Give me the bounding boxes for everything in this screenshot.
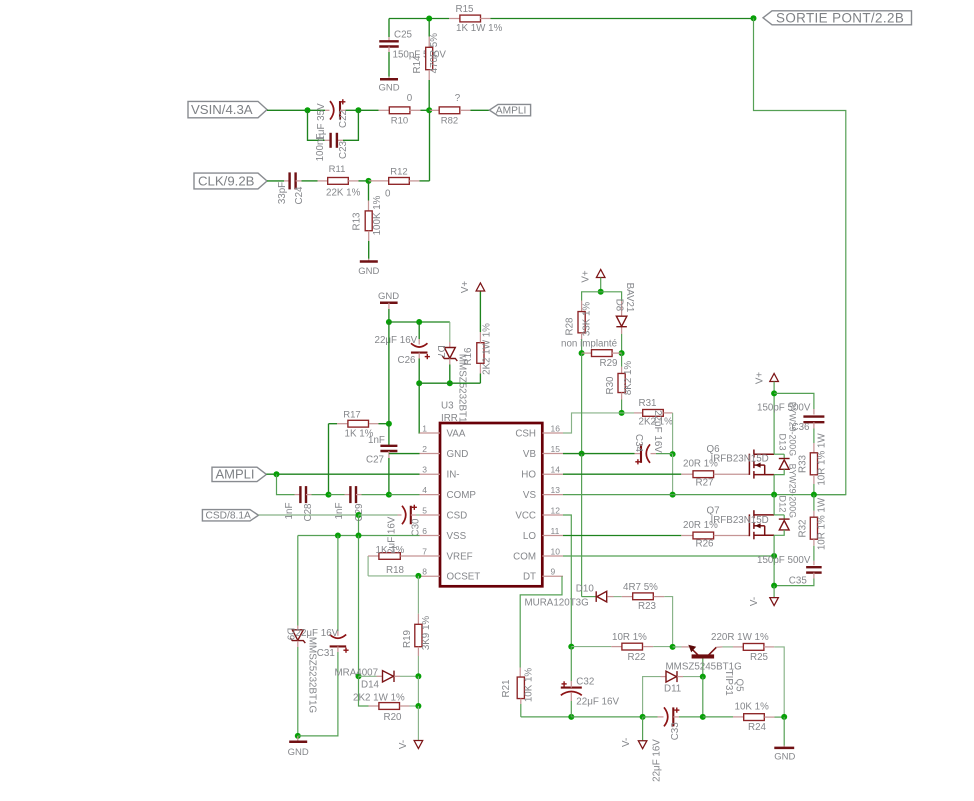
svg-text:4R7 5%: 4R7 5% <box>623 582 658 593</box>
node D11/Q5-base junction <box>700 674 706 680</box>
wire OCSET line <box>368 575 419 577</box>
label CLK/9.2B flag <box>194 173 267 189</box>
wire Q7 drain to VS <box>773 495 775 515</box>
svg-text:9: 9 <box>551 567 556 577</box>
svg-text:8K2 1%: 8K2 1% <box>623 361 634 396</box>
svg-text:150pF 500V: 150pF 500V <box>757 555 811 566</box>
node R31-net/VS junction <box>670 492 676 498</box>
wire V+ to C36 <box>774 393 814 409</box>
svg-text:2: 2 <box>422 444 427 454</box>
svg-text:R19: R19 <box>402 630 413 648</box>
svg-text:CSH: CSH <box>515 428 536 439</box>
svg-text:R15: R15 <box>456 4 475 15</box>
svg-text:1: 1 <box>422 423 427 433</box>
resistor R20 <box>353 693 418 724</box>
ground GND bottom-left <box>288 736 309 758</box>
wire COM to V- node <box>773 556 775 586</box>
svg-text:VCC: VCC <box>515 510 536 521</box>
resistor R22 <box>571 632 672 663</box>
svg-text:R30: R30 <box>605 376 616 395</box>
resistor R23 <box>622 582 673 647</box>
U3 pin 12 VCC <box>515 505 563 521</box>
resistor R17 <box>329 409 389 439</box>
svg-text:R12: R12 <box>390 167 407 178</box>
svg-text:D11: D11 <box>664 683 681 694</box>
svg-text:10K 1%: 10K 1% <box>735 702 770 713</box>
svg-text:IRFB23N15D: IRFB23N15D <box>711 454 769 465</box>
svg-text:V-: V- <box>398 740 409 749</box>
node D14 left junction <box>356 673 362 679</box>
svg-text:V+: V+ <box>460 281 471 294</box>
svg-text:GND: GND <box>447 449 469 460</box>
svg-text:C28: C28 <box>303 503 314 522</box>
svg-text:D7: D7 <box>435 345 446 358</box>
node top-center junction <box>426 16 432 22</box>
node Q6/Q7/VS junction <box>771 492 777 498</box>
power V- below COM node <box>749 586 779 607</box>
svg-text:D14: D14 <box>361 680 380 691</box>
label AMPLI flag (right) <box>489 104 530 116</box>
capacitor C31 (polarized) <box>296 536 349 736</box>
U3 pin 16 CSH <box>515 423 563 439</box>
diode D11 (MMSZ5245BT1G) <box>643 661 742 717</box>
ground GND below R13 <box>358 262 379 278</box>
wire VCC line <box>563 515 571 647</box>
wire C24 to R11 <box>302 180 318 182</box>
svg-text:22μF 16V: 22μF 16V <box>576 696 619 707</box>
svg-text:11: 11 <box>551 526 560 536</box>
wire AMPLI to IN- pin <box>266 473 419 475</box>
svg-text:DT: DT <box>523 572 536 583</box>
svg-text:R17: R17 <box>343 409 360 420</box>
svg-text:GND: GND <box>288 747 309 758</box>
capacitor C30 (polarized) <box>359 505 422 560</box>
transistor Q7 (IRFB23N15D) <box>707 506 775 540</box>
resistor R14 <box>412 19 440 111</box>
node V+/C36 junction <box>771 390 777 396</box>
power V+ above C36 <box>755 372 779 394</box>
U3 pin 2 GND <box>420 444 469 460</box>
capacitor C24 <box>277 172 305 204</box>
svg-text:non implanté: non implanté <box>561 339 618 350</box>
svg-text:IRR: IRR <box>441 413 458 424</box>
svg-text:R82: R82 <box>441 116 458 127</box>
resistor R25 <box>711 632 784 717</box>
U3 pin 3 IN- <box>420 465 460 481</box>
node COM/Q7-source junction <box>771 553 777 559</box>
resistor R24 <box>703 702 784 734</box>
resistor R82 <box>429 93 489 127</box>
svg-text:1nF: 1nF <box>284 503 295 520</box>
svg-text:1nF: 1nF <box>368 435 385 446</box>
svg-text:R25: R25 <box>750 652 769 663</box>
svg-text:10R 1% 1W: 10R 1% 1W <box>817 497 828 550</box>
svg-text:AMPLI: AMPLI <box>216 467 255 482</box>
svg-text:R22: R22 <box>628 652 646 663</box>
svg-text:VAA: VAA <box>447 428 466 439</box>
capacitor C27 <box>366 322 397 495</box>
capacitor C25 <box>379 19 446 80</box>
wire COM line <box>563 555 774 557</box>
svg-text:22μF 16V: 22μF 16V <box>651 739 662 782</box>
node VSS/CSD junction <box>356 533 362 539</box>
node AMPLI/R14 junction <box>426 107 432 113</box>
diode D14 (MRA4007) <box>335 667 419 690</box>
wire U3 GND pin to rail <box>389 453 420 455</box>
U3 pin 4 COMP <box>420 485 477 501</box>
wire DT net <box>520 576 562 667</box>
transistor Q6 (IRFB23N15D) <box>707 444 775 479</box>
node C28/C29 junction <box>326 492 332 498</box>
svg-text:10R 1%: 10R 1% <box>612 632 647 643</box>
wire R12 up to AMPLI node <box>429 110 431 181</box>
wire CSD line <box>259 514 359 516</box>
label SORTIE PONT/2.2B flag <box>763 10 912 25</box>
svg-text:MURA120T3G: MURA120T3G <box>525 597 589 608</box>
svg-text:GND: GND <box>378 83 399 94</box>
capacitor C22 (polarized) <box>316 99 358 140</box>
ground GND above C26 (inverted) <box>378 291 399 322</box>
svg-text:GND: GND <box>774 752 795 763</box>
svg-text:CSD: CSD <box>447 510 468 521</box>
svg-text:33K 1%: 33K 1% <box>581 302 592 337</box>
svg-text:3K9 1%: 3K9 1% <box>421 616 432 651</box>
resistor R16 <box>463 291 493 375</box>
diode D9 (zener MMSZ5232BT1G) <box>285 626 318 736</box>
svg-text:D10: D10 <box>576 584 595 595</box>
svg-text:D9: D9 <box>285 628 296 641</box>
node V-/C35 junction <box>771 583 777 589</box>
wire Q6 source to VS <box>773 475 775 495</box>
svg-text:7: 7 <box>422 546 427 556</box>
node R19/R20 junction <box>415 703 421 709</box>
wire R20 branch <box>359 676 369 706</box>
svg-text:0: 0 <box>407 93 413 104</box>
svg-text:C31: C31 <box>317 648 335 659</box>
svg-text:CLK/9.2B: CLK/9.2B <box>198 174 255 189</box>
svg-text:R24: R24 <box>748 722 767 733</box>
resistor R27 <box>681 459 749 489</box>
svg-text:IN-: IN- <box>447 470 460 481</box>
U3 pin 13 VS <box>523 485 563 501</box>
power V+ above R28/D8 <box>580 270 605 292</box>
wire SORTIE PONT vertical run <box>754 18 846 494</box>
wire Q6 drain to V+ node <box>773 393 775 454</box>
svg-text:R14: R14 <box>412 55 423 74</box>
svg-text:Q5: Q5 <box>733 678 744 692</box>
svg-text:C35: C35 <box>789 576 808 587</box>
svg-text:15: 15 <box>551 444 561 454</box>
svg-text:100nF: 100nF <box>315 134 326 162</box>
node C29/C27 junction <box>386 492 392 498</box>
wire COMP net left segment <box>277 474 295 494</box>
resistor R11 <box>318 164 369 199</box>
wire VSS left drop <box>297 536 299 626</box>
svg-text:V-: V- <box>749 597 760 606</box>
node C26 bottom junction <box>416 380 422 386</box>
capacitor C23 <box>315 133 349 162</box>
svg-text:13: 13 <box>551 485 561 495</box>
svg-text:1nF: 1nF <box>334 503 345 520</box>
svg-text:GND: GND <box>358 266 379 277</box>
label VSIN/4.3A flag <box>188 101 267 117</box>
node VB junction <box>579 451 585 457</box>
node R24/R25 junction <box>781 714 787 720</box>
svg-text:4: 4 <box>422 485 427 495</box>
svg-text:R10: R10 <box>391 116 408 127</box>
svg-text:R28: R28 <box>565 317 576 336</box>
wire HO line <box>563 473 681 475</box>
svg-text:OCSET: OCSET <box>447 572 481 583</box>
svg-text:10: 10 <box>551 546 561 556</box>
wire bottom rail C32 to V- <box>571 716 642 718</box>
node D7 bottom junction <box>447 380 453 386</box>
node VCC/R22 junction <box>568 644 574 650</box>
svg-text:10R 1% 1W: 10R 1% 1W <box>817 433 828 486</box>
U3 pin 7 VREF <box>420 546 473 562</box>
svg-text:C23: C23 <box>338 140 349 159</box>
capacitor C36 <box>757 402 824 443</box>
svg-text:VS: VS <box>523 490 537 501</box>
svg-text:22K 1%: 22K 1% <box>326 187 361 198</box>
svg-text:10K 1%: 10K 1% <box>523 668 534 703</box>
svg-text:IRFB23N15D: IRFB23N15D <box>711 515 769 526</box>
U3 pin 9 DT <box>523 567 563 583</box>
resistor R12 <box>369 167 430 200</box>
ground GND below C25 <box>378 79 399 93</box>
U3 pin 5 CSD <box>420 505 468 521</box>
svg-text:GND: GND <box>378 291 399 302</box>
svg-text:MMSZ5245BT1G: MMSZ5245BT1G <box>666 661 742 672</box>
svg-text:SORTIE PONT/2.2B: SORTIE PONT/2.2B <box>776 10 904 25</box>
svg-text:150pF 500V: 150pF 500V <box>757 402 811 413</box>
node C34/R31 junction <box>670 451 676 457</box>
wire bottom V- rail <box>521 716 572 718</box>
svg-text:3: 3 <box>422 465 427 475</box>
svg-text:100K 1%: 100K 1% <box>372 195 383 235</box>
svg-text:22μF 16V: 22μF 16V <box>652 410 663 453</box>
op-amp U3 IC body <box>440 401 542 587</box>
wire VB to D10 vertical <box>581 353 583 454</box>
svg-text:R31: R31 <box>639 398 657 409</box>
node AMPLI branch junction <box>274 471 280 477</box>
svg-text:LO: LO <box>523 531 536 542</box>
svg-text:R29: R29 <box>600 358 618 369</box>
svg-text:1K 1W 1%: 1K 1W 1% <box>456 23 503 34</box>
svg-text:R13: R13 <box>352 212 363 231</box>
diode D13 (BYW29-200G) <box>774 402 797 475</box>
resistor R33 <box>798 433 828 495</box>
wire Q5 base drop <box>702 677 704 717</box>
svg-text:22μF 16V: 22μF 16V <box>296 628 339 639</box>
node D8/R29/R30 junction <box>619 350 625 356</box>
U3 pin 8 OCSET <box>420 567 481 583</box>
svg-text:D12: D12 <box>777 495 787 512</box>
svg-text:C25: C25 <box>394 30 413 41</box>
resistor R31 <box>634 398 673 427</box>
diode D10 (MURA120T3G) <box>525 584 622 609</box>
wire C26/D7 top rail <box>389 321 450 323</box>
svg-text:VB: VB <box>523 449 537 460</box>
svg-text:R26: R26 <box>696 539 715 550</box>
capacitor C28 <box>284 486 328 521</box>
power V+ above R16 <box>460 281 485 294</box>
svg-text:AMPLI: AMPLI <box>496 106 527 117</box>
wire R17 left drop <box>328 424 330 495</box>
label AMPLI flag (left) <box>212 467 266 482</box>
node GND-left junction <box>295 733 301 739</box>
resistor R32 <box>798 495 828 561</box>
svg-text:22μF 16V: 22μF 16V <box>375 335 418 346</box>
svg-text:12: 12 <box>551 505 561 515</box>
node R28/R29 junction <box>579 350 585 356</box>
svg-text:C34: C34 <box>633 434 644 453</box>
capacitor C26 (polarized) <box>375 322 430 383</box>
svg-text:2K2 1W 1%: 2K2 1W 1% <box>482 323 493 375</box>
capacitor C35 <box>757 555 822 587</box>
wire CSD to VSS drop <box>358 515 360 536</box>
diode D7 (zener MMSZ5232BT1G) <box>435 322 468 430</box>
svg-text:220R 1W 1%: 220R 1W 1% <box>711 632 769 643</box>
svg-text:0: 0 <box>385 188 391 199</box>
svg-text:16: 16 <box>551 423 561 433</box>
svg-text:CSD/8.1A: CSD/8.1A <box>206 511 252 522</box>
svg-text:R16: R16 <box>463 347 474 366</box>
svg-text:V+: V+ <box>580 270 591 283</box>
wire bootstrap drop to D10 <box>581 454 583 597</box>
node R11/R12/R13 junction <box>366 178 372 184</box>
node OCSET/R19 junction <box>415 573 421 579</box>
label CSD/8.1A flag <box>202 510 258 522</box>
wire R31 net to VS <box>672 454 674 495</box>
svg-text:33pF: 33pF <box>277 182 288 204</box>
svg-text:R32: R32 <box>798 520 809 538</box>
wire COMP to pin4 <box>389 494 420 496</box>
wire R19 to R20 node <box>417 676 419 706</box>
svg-text:V+: V+ <box>755 372 766 385</box>
wire VSS line <box>298 535 420 537</box>
svg-text:TIP31: TIP31 <box>723 670 734 696</box>
resistor R18 <box>368 545 419 576</box>
node VSS/C31 junction <box>335 533 341 539</box>
wire C22 node to R10 <box>358 109 378 111</box>
ground GND bottom-right <box>774 717 795 763</box>
svg-text:8: 8 <box>422 567 427 577</box>
power V- below R19 <box>398 706 423 749</box>
svg-text:VREF: VREF <box>447 551 473 562</box>
U3 pin 14 HO <box>521 465 563 481</box>
svg-text:6: 6 <box>422 526 427 536</box>
transistor Q5 (TIP31) <box>688 645 744 696</box>
capacitor C29 <box>329 486 389 521</box>
svg-text:C26: C26 <box>398 355 417 366</box>
svg-text:R11: R11 <box>329 164 346 175</box>
power V- bottom center <box>621 717 647 749</box>
capacitor C33 (polarized) <box>643 707 703 781</box>
svg-text:R21: R21 <box>501 680 512 698</box>
svg-text:VSS: VSS <box>447 531 467 542</box>
svg-text:D13: D13 <box>777 433 787 450</box>
svg-text:C32: C32 <box>576 676 594 687</box>
wire VSIN to C22 node <box>267 109 325 111</box>
node R33/R32/VS junction <box>811 492 817 498</box>
wire R22 node to Q5 emitter <box>673 646 690 648</box>
resistor R29 (non implanté) <box>561 339 622 369</box>
svg-text:5: 5 <box>422 505 427 515</box>
node R30/CSH junction <box>619 410 625 416</box>
svg-text:14: 14 <box>551 465 561 475</box>
svg-text:C33: C33 <box>670 722 681 741</box>
capacitor C32 (polarized) <box>561 647 620 717</box>
wire R15 to SORTIE PONT <box>491 18 754 20</box>
wire Q7 source to COM <box>773 535 775 556</box>
svg-text:BYW29-200G: BYW29-200G <box>788 464 798 518</box>
svg-text:VSIN/4.3A: VSIN/4.3A <box>191 102 253 117</box>
resistor R28 <box>565 292 601 353</box>
wire top node to C25 and R15 <box>389 18 449 20</box>
wire R31 to VS drop <box>672 413 674 454</box>
diode D12 (BYW29-200G) <box>774 464 797 536</box>
node C32 bottom junction <box>568 714 574 720</box>
resistor R26 <box>681 520 749 550</box>
node R19/D14 junction <box>415 673 421 679</box>
svg-text:R27: R27 <box>696 477 714 488</box>
node CSD branch junction <box>356 512 362 518</box>
svg-text:?: ? <box>455 93 461 104</box>
svg-text:C27: C27 <box>366 455 384 466</box>
node V- bottom junction <box>640 714 646 720</box>
node C22-right junction <box>355 107 361 113</box>
svg-text:R20: R20 <box>384 712 403 723</box>
U3 pin 10 COM <box>513 546 563 562</box>
svg-text:COMP: COMP <box>447 490 477 501</box>
node R22/R23/Q5 junction <box>670 644 676 650</box>
svg-text:C24: C24 <box>294 186 305 205</box>
svg-text:1K 1%: 1K 1% <box>376 545 405 556</box>
resistor R10 <box>379 93 430 127</box>
node R15/SORTIE junction <box>751 15 757 21</box>
svg-text:C22: C22 <box>338 110 349 128</box>
node R17 right junction <box>386 421 392 427</box>
U3 pin 11 LO <box>523 526 563 542</box>
wire CSH line <box>563 413 634 433</box>
svg-text:R23: R23 <box>638 601 657 612</box>
svg-text:MRA4007: MRA4007 <box>335 667 379 678</box>
wire LO line <box>563 535 681 537</box>
svg-text:U3: U3 <box>441 401 454 412</box>
node C26 top junction <box>416 319 422 325</box>
svg-text:HO: HO <box>521 470 536 481</box>
svg-text:C36: C36 <box>792 422 811 433</box>
U3 pin 1 VAA <box>420 423 466 439</box>
wire VAA feed <box>418 383 420 433</box>
node C33/Q5-base bottom junction <box>700 714 706 720</box>
svg-text:COM: COM <box>513 551 536 562</box>
wire CLK to C24 <box>267 180 284 182</box>
resistor R15 <box>449 4 503 34</box>
svg-text:D8: D8 <box>613 299 624 312</box>
node GND/C26 rail junction <box>386 319 392 325</box>
resistor R30 <box>605 353 634 413</box>
node VSIN/C22-left junction <box>305 107 311 113</box>
node V+ rail junction <box>598 289 604 295</box>
svg-text:R18: R18 <box>386 565 405 576</box>
svg-text:V-: V- <box>621 738 632 747</box>
svg-text:2K2 1W 1%: 2K2 1W 1% <box>353 693 405 704</box>
diode D8 (BAV21) <box>601 283 635 353</box>
wire VS line <box>563 494 846 496</box>
resistor R13 <box>352 181 384 262</box>
